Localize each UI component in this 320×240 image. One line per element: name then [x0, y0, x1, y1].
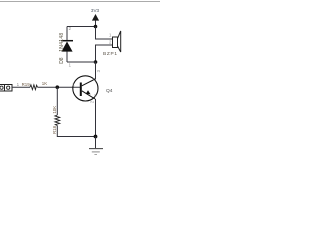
junction node ground [94, 135, 98, 139]
wire connector to resistor R19 [12, 86, 30, 88]
junction node 3V3 [94, 25, 98, 29]
resistor R19 1K [22, 81, 48, 89]
base bar [80, 83, 82, 97]
svg-text:BZP1: BZP1 [103, 51, 118, 57]
svg-text:1K: 1K [42, 81, 47, 86]
diode D8 1N4148 [59, 26, 73, 68]
wire top horizontal 3V3 to diode cathode [67, 26, 96, 28]
wire emitter down to ground junction [95, 99, 97, 137]
wire junction down to R18 [56, 87, 58, 115]
svg-text:10K: 10K [52, 106, 57, 114]
svg-text:Q4: Q4 [106, 88, 113, 94]
wire diode anode to rail [67, 61, 96, 63]
wire R18 to ground rail [57, 126, 95, 137]
speaker BZP1 [103, 31, 121, 57]
power 3V3 [91, 8, 100, 26]
junction node diode anode / collector [94, 60, 98, 64]
collector line [82, 79, 95, 86]
svg-text:3V3: 3V3 [91, 8, 100, 13]
wire speaker pin 2 to collector rail [96, 45, 113, 79]
junction node base/R18 [56, 85, 60, 89]
resistor R18 10K [52, 106, 60, 134]
svg-text:R18: R18 [52, 125, 57, 134]
wire R19 to base [38, 86, 81, 88]
ground [89, 137, 103, 155]
connector pins (left edge header) [0, 85, 12, 92]
svg-text:1N4148: 1N4148 [59, 32, 65, 51]
svg-text:R19: R19 [22, 82, 31, 87]
transistor Q4 [72, 62, 113, 103]
wire 3V3 rail down to speaker pin 1 [96, 27, 113, 40]
svg-text:D8: D8 [59, 57, 65, 64]
emitter line with arrow [82, 91, 95, 99]
